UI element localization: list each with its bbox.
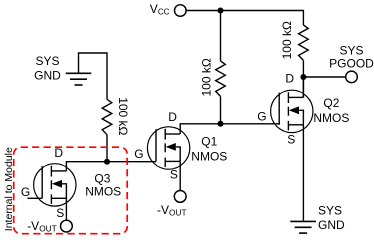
terminal -VOUT Q1 bbox=[174, 191, 186, 203]
svg-text:S: S bbox=[287, 133, 295, 147]
ground: right SYS GND symbol bbox=[290, 221, 316, 233]
wire: left resistor bottom to node bbox=[106, 135, 108, 162]
svg-text:Q1: Q1 bbox=[201, 135, 217, 149]
wire: top rail from VCC terminal to right resistor corner bbox=[186, 11, 303, 26]
node: junction dot Q1 drain / middle resistor bbox=[218, 121, 224, 127]
svg-text:VCC: VCC bbox=[150, 2, 170, 17]
svg-text:NMOS: NMOS bbox=[191, 149, 227, 163]
wire: Q2 drain node to SYS PGOOD terminal bbox=[303, 76, 345, 78]
svg-text:100 kΩ: 100 kΩ bbox=[116, 97, 130, 135]
svg-text:100 kΩ: 100 kΩ bbox=[280, 21, 294, 59]
svg-text:GND: GND bbox=[34, 69, 61, 83]
svg-text:SYS: SYS bbox=[35, 54, 59, 68]
svg-text:D: D bbox=[285, 72, 294, 86]
transistor Q2 NMOS bbox=[271, 90, 313, 132]
wire: Q2 source lead to ground bbox=[302, 125, 304, 221]
dashed box: Internal to Module bbox=[14, 147, 128, 234]
terminal -VOUT Q3 bbox=[61, 220, 73, 232]
svg-text:S: S bbox=[56, 206, 64, 220]
svg-text:SYS: SYS bbox=[339, 43, 363, 57]
svg-text:PGOOD: PGOOD bbox=[329, 57, 374, 71]
node: junction dot on VCC rail bbox=[218, 8, 224, 14]
transistor Q1 NMOS bbox=[147, 127, 189, 169]
wire: middle resistor top lead bbox=[220, 11, 222, 62]
svg-text:D: D bbox=[54, 146, 63, 160]
svg-text:GND: GND bbox=[318, 218, 345, 232]
svg-text:G: G bbox=[21, 185, 30, 199]
wire: right resistor bottom to Q2 drain node bbox=[302, 60, 304, 97]
svg-text:NMOS: NMOS bbox=[85, 185, 121, 199]
svg-text:Q3: Q3 bbox=[94, 172, 110, 186]
svg-text:Q2: Q2 bbox=[323, 96, 339, 110]
svg-text:-VOUT: -VOUT bbox=[157, 203, 187, 218]
svg-text:G: G bbox=[257, 110, 266, 124]
svg-text:100 kΩ: 100 kΩ bbox=[200, 58, 214, 96]
wire: Q1 drain to Q2 gate bbox=[180, 124, 279, 134]
terminal SYS PGOOD bbox=[346, 71, 358, 83]
wire: Q3 gate lead bbox=[27, 197, 42, 199]
resistor R right 100k bbox=[299, 25, 309, 60]
wire: left SYS GND stub to left resistor top bbox=[79, 53, 108, 99]
wire: middle resistor bottom lead bbox=[220, 96, 222, 123]
svg-text:D: D bbox=[168, 110, 177, 124]
node: junction dot Q2 drain bbox=[300, 74, 306, 80]
svg-text:G: G bbox=[134, 147, 143, 161]
terminal VCC bbox=[175, 5, 187, 17]
svg-text:SYS: SYS bbox=[318, 204, 342, 218]
wire: Q1 source lead bbox=[179, 161, 181, 190]
wire: Q3 source lead bbox=[65, 198, 67, 220]
svg-text:NMOS: NMOS bbox=[313, 111, 349, 125]
wire: Q2 drain lead bbox=[302, 77, 304, 97]
ground: left SYS GND symbol bbox=[66, 73, 92, 85]
wire: Q3 drain to Q1 gate bbox=[66, 162, 156, 171]
transistor Q3 NMOS bbox=[34, 164, 76, 206]
svg-text:-VOUT: -VOUT bbox=[27, 219, 57, 234]
svg-text:S: S bbox=[170, 168, 178, 182]
resistor R middle 100k bbox=[216, 61, 226, 96]
svg-text:Internal to Module: Internal to Module bbox=[3, 147, 15, 231]
resistor R left 100k bbox=[102, 99, 112, 134]
node: junction dot left resistor / Q3 drain bbox=[104, 159, 110, 165]
